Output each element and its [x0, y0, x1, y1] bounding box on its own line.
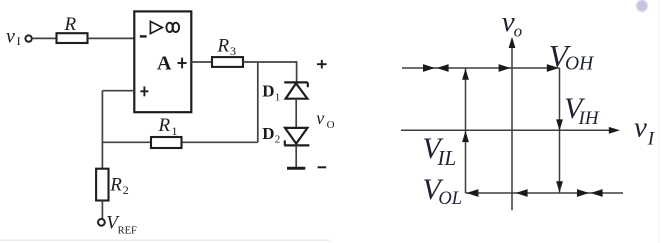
wire non-inverting input horizontal — [102, 90, 134, 92]
wire R2 to VREF terminal — [101, 201, 103, 219]
svg-text:D: D — [262, 82, 274, 101]
pin - (inverting input marker) — [140, 35, 147, 37]
wire vertical node B (input node down to R2) — [101, 91, 103, 169]
label v_I — [634, 112, 656, 150]
label V_IL — [422, 132, 456, 170]
arrow right on VOL line — [577, 189, 589, 197]
wire diode branch top vertical — [296, 61, 298, 82]
svg-text:D: D — [262, 124, 274, 143]
bottom terminal bar — [287, 167, 305, 170]
op-amp gain triangle symbol — [150, 21, 162, 33]
label V_IH — [564, 92, 600, 129]
label D2 — [262, 124, 280, 146]
svg-text:R: R — [158, 115, 171, 136]
svg-text:R: R — [109, 175, 122, 196]
terminal VREF circle — [98, 219, 105, 226]
svg-text:I: I — [17, 34, 21, 48]
wire R1 horizontal — [102, 141, 257, 143]
svg-text:O: O — [327, 119, 335, 131]
segment V_IH falling vertical line — [559, 68, 561, 193]
pin + (non-inverting input marker) — [140, 86, 148, 96]
wire D2 to bottom terminal — [295, 145, 297, 167]
segment VOL bottom level line — [466, 192, 624, 194]
label v_O output — [316, 108, 334, 131]
svg-text:A: A — [157, 53, 172, 75]
svg-text:v: v — [634, 112, 647, 144]
wire feedback vertical (output node down to R1) — [257, 62, 259, 142]
arrow left on VOL line — [591, 189, 603, 197]
input terminal circle — [25, 35, 31, 41]
wire R3 to diode node — [243, 61, 297, 63]
svg-text:IL: IL — [437, 146, 457, 170]
resistor R2 — [96, 169, 108, 201]
svg-text:1: 1 — [172, 124, 178, 138]
axis v_I horizontal — [401, 129, 612, 131]
node v_I input label — [6, 25, 21, 48]
svg-text:R: R — [64, 14, 77, 35]
resistor R — [57, 33, 88, 43]
segment V_IL rising vertical line — [465, 69, 467, 194]
arrow down at axis on V_IH line — [556, 119, 563, 130]
wire R to op-amp — [88, 37, 135, 39]
op-amp U A (rectangle body) — [134, 11, 191, 112]
svg-text:OL: OL — [438, 189, 462, 209]
axis v_o vertical — [511, 45, 513, 210]
arrow right on VOH line — [423, 64, 435, 72]
arrow left on VOH line — [437, 64, 449, 72]
svg-text:1: 1 — [275, 91, 281, 103]
label V_OH — [549, 39, 594, 75]
faint right window edge — [658, 0, 659, 243]
arrow up at axis on V_IL line — [462, 131, 469, 142]
resistor R3 — [212, 57, 243, 67]
wire op-amp output to R3 — [191, 61, 212, 63]
svg-text:IH: IH — [578, 108, 600, 129]
svg-text:v: v — [6, 25, 15, 47]
svg-text:v: v — [316, 108, 324, 128]
svg-text:OH: OH — [565, 53, 594, 74]
label R3 — [217, 36, 237, 59]
label R2 — [109, 175, 129, 198]
arrow right mid VOH line — [499, 64, 511, 72]
wire input to R — [32, 37, 57, 39]
label R1 — [158, 115, 178, 138]
diode D2 (zener, pointing down) — [284, 128, 309, 145]
resistor R1 — [151, 137, 182, 148]
node + (output polarity plus) — [317, 60, 327, 69]
pin + (output polarity marker) — [178, 58, 187, 69]
wire between D1 and D2 — [295, 99, 297, 128]
node - (output polarity minus) — [318, 166, 327, 168]
segment VOH top level line — [402, 67, 560, 69]
svg-text:REF: REF — [118, 226, 137, 237]
svg-text:2: 2 — [123, 183, 129, 197]
arrow right end VOH line — [547, 64, 559, 72]
faint bottom-left rule — [0, 240, 330, 241]
arrow left at VOL corner — [466, 189, 478, 197]
diode D1 (zener, pointing up) — [284, 82, 308, 98]
svg-text:o: o — [514, 22, 523, 41]
label V_REF — [106, 213, 137, 237]
arrow left mid VOL line — [516, 189, 528, 197]
label D1 — [262, 82, 280, 104]
arrow down at bottom on V_IH line — [556, 181, 563, 192]
infinity symbol — [166, 23, 179, 32]
svg-text:3: 3 — [230, 44, 236, 58]
arrow up at top on V_IL line — [462, 69, 469, 80]
svg-text:2: 2 — [275, 134, 281, 146]
label v_o — [502, 6, 522, 40]
svg-text:R: R — [217, 36, 230, 57]
label V_OL — [422, 173, 462, 209]
